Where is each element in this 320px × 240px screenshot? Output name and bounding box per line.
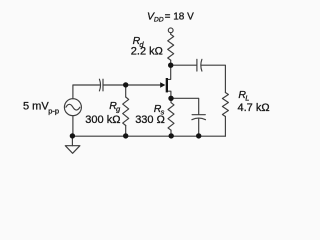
junction dot rail below Rs	[169, 133, 174, 138]
junction dot drain node	[168, 62, 173, 67]
wire source node down to Rs	[170, 98, 172, 102]
wire source node to bypass cap	[171, 98, 199, 114]
junction dot rail below Rg	[123, 133, 128, 138]
wire Rs bottom to rail	[170, 130, 172, 136]
junction dot source node	[168, 96, 173, 101]
svg-text:300 kΩ: 300 kΩ	[85, 114, 120, 126]
junction dot rail below source	[70, 133, 75, 138]
resistor RL 4.7k zigzag	[222, 93, 228, 117]
VDD supply terminal	[168, 28, 173, 33]
label RL	[238, 89, 249, 103]
sine wave inside source	[66, 104, 80, 110]
svg-text:= 18 V: = 18 V	[165, 12, 195, 23]
svg-text:5 mV: 5 mV	[23, 101, 49, 113]
capacitor C3 bypass top straight plate	[192, 114, 205, 116]
capacitor C1 input curved left plate	[99, 79, 100, 91]
svg-text:DD: DD	[154, 16, 164, 23]
wire drain node to output capacitor	[171, 64, 197, 66]
svg-text:330 Ω: 330 Ω	[135, 114, 165, 126]
resistor Rd 2.2k zigzag	[168, 34, 174, 60]
ground symbol triangle	[65, 146, 80, 154]
svg-text:p-p: p-p	[48, 107, 59, 116]
wire gate node down to Rg	[125, 85, 127, 97]
label Rd	[133, 35, 145, 49]
resistor Rs 330 zigzag	[168, 103, 174, 131]
JFET Q1 drain lead	[168, 65, 171, 79]
label Rs	[154, 103, 165, 116]
svg-text:4.7 kΩ: 4.7 kΩ	[238, 102, 270, 114]
wire bypass cap to rail	[198, 119, 200, 136]
wire rail to ground	[71, 136, 73, 146]
wire C2 to RL top corner	[201, 65, 225, 92]
JFET Q1 source lead	[168, 91, 171, 98]
capacitor C2 output left plate	[196, 59, 198, 71]
capacitor C3 bypass bottom curved plate	[192, 118, 206, 120]
wire Rd to drain node	[170, 60, 172, 65]
wire Rg bottom to rail	[125, 126, 127, 137]
bottom ground rail	[72, 135, 225, 137]
label VDD = 18 V	[147, 11, 194, 24]
svg-text:2.2 kΩ: 2.2 kΩ	[131, 46, 163, 58]
svg-text:g: g	[116, 105, 121, 114]
wire RL bottom to rail	[224, 117, 226, 137]
junction dot gate node	[123, 82, 128, 87]
source Vin circle	[64, 99, 81, 116]
JFET Q1 gate arrow	[160, 82, 165, 87]
wire C1 to gate node to JFET gate	[103, 84, 161, 86]
resistor Rg 300k zigzag	[123, 97, 129, 126]
capacitor C2 output right curved plate	[201, 59, 202, 71]
junction dot rail below bypass cap	[196, 133, 201, 138]
wire source circle top to input cap	[73, 85, 100, 99]
capacitor C1 input straight right plate	[102, 79, 104, 91]
JFET Q1 channel bar	[166, 78, 168, 92]
wire source circle bottom to rail	[72, 116, 74, 137]
wire VDD terminal to Rd	[170, 33, 172, 35]
label 5 mV p-p	[23, 101, 59, 116]
label Rg	[109, 100, 121, 114]
